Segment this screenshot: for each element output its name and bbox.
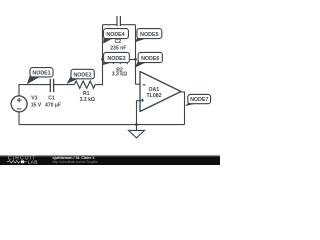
svg-text:V1: V1 xyxy=(31,96,37,102)
node NODE7 flag xyxy=(185,94,210,106)
svg-text:NODE7: NODE7 xyxy=(190,97,208,103)
wire right vertical of loop to inverting input xyxy=(135,25,137,84)
svg-text:http://circuitlab.com/c/7wq4ta: http://circuitlab.com/c/7wq4ta xyxy=(52,160,97,164)
junction dot ground rail xyxy=(135,123,138,126)
node NODE1 flag xyxy=(27,68,53,85)
node NODE3 flag xyxy=(102,52,129,65)
svg-text:470 µF: 470 µF xyxy=(45,102,61,108)
capacitor C2 xyxy=(117,16,120,26)
svg-text:TL082: TL082 xyxy=(147,93,162,99)
svg-text:235 nF: 235 nF xyxy=(110,45,126,51)
node NODE6 flag xyxy=(134,52,162,68)
svg-text:NODE1: NODE1 xyxy=(32,70,50,76)
label C2 value xyxy=(110,39,126,52)
label R1 value xyxy=(80,91,95,103)
svg-text:LAB: LAB xyxy=(28,159,38,165)
op-amp OA1 xyxy=(140,72,181,112)
ground xyxy=(129,125,145,138)
resistor R2 xyxy=(108,56,129,63)
node NODE2 flag xyxy=(67,69,95,84)
svg-text:NODE2: NODE2 xyxy=(73,72,91,78)
wire C1 to R1 xyxy=(53,84,74,86)
svg-text:C2: C2 xyxy=(115,39,122,45)
wire non-inverting input stub down to rail xyxy=(137,101,141,125)
voltage source V1 xyxy=(11,96,27,112)
svg-text:NODE3: NODE3 xyxy=(107,56,125,62)
capacitor C1 xyxy=(50,79,53,92)
svg-text:15 V: 15 V xyxy=(31,102,42,108)
label V1 value xyxy=(31,96,42,109)
wire output stub and down to rail xyxy=(181,92,185,125)
svg-text:NODE4: NODE4 xyxy=(106,32,124,38)
resistor R1 xyxy=(74,81,95,88)
wire bottom rail xyxy=(19,124,185,126)
wire V1 bottom to rail xyxy=(18,112,20,125)
node NODE4 flag xyxy=(103,29,128,44)
label R2 value xyxy=(112,67,127,77)
junction dot R2 right xyxy=(134,58,137,61)
junction dot R2 left xyxy=(101,58,104,61)
wire middle branch (R2 row) xyxy=(103,58,136,60)
wire top right segment from C2 xyxy=(121,24,136,26)
svg-text:NODE6: NODE6 xyxy=(141,56,159,62)
label C1 value xyxy=(45,96,61,109)
svg-text:NODE5: NODE5 xyxy=(140,32,158,38)
footer bar xyxy=(0,155,220,157)
footer logo CIRCUIT LAB xyxy=(7,155,38,165)
svg-text:R1: R1 xyxy=(83,91,90,97)
svg-text:OA1: OA1 xyxy=(149,87,160,93)
wire V1 top to C1 xyxy=(19,85,50,96)
svg-text:3.3 kΩ: 3.3 kΩ xyxy=(112,72,127,78)
wire R1 right lead to loop corner xyxy=(95,84,103,86)
wire top left segment to C2 xyxy=(103,24,118,26)
node NODE5 flag xyxy=(135,29,162,43)
svg-text:C1: C1 xyxy=(48,96,55,102)
wire left vertical of feedback loop xyxy=(102,25,104,85)
svg-text:3.3 kΩ: 3.3 kΩ xyxy=(80,97,95,103)
wire inverting input stub xyxy=(136,83,141,85)
